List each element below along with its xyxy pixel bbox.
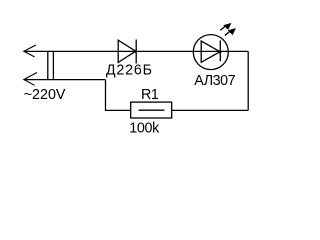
- LED AL307 triangle: [201, 41, 220, 62]
- plug pin arrow top: [24, 45, 36, 57]
- svg-text:Д226Б: Д226Б: [106, 63, 153, 79]
- wire: left vertical drop to resistor row: [106, 80, 131, 111]
- wire bottom-left: plug lower pin: [24, 79, 106, 81]
- LED light arrow 1 shaft: [220, 26, 225, 30]
- LED junction dot: [218, 50, 221, 53]
- resistor R1 body: [131, 102, 172, 118]
- resistor R1 inner bar: [139, 109, 165, 111]
- svg-text:~220V: ~220V: [24, 87, 66, 103]
- plug pin arrow bottom: [24, 73, 37, 86]
- plug socket bar 2: [52, 51, 54, 80]
- diode junction dot: [134, 50, 137, 53]
- svg-text:АЛ307: АЛ307: [194, 73, 235, 89]
- wire: right vertical from LED down: [247, 51, 249, 110]
- LED light arrow 1 head: [223, 23, 231, 30]
- LED AL307 circle: [193, 35, 228, 70]
- diode D226B cathode bar: [135, 40, 137, 64]
- LED light arrow 2 head: [228, 28, 236, 35]
- diode D226B triangle: [118, 40, 136, 62]
- LED light arrow 2 shaft: [225, 31, 230, 35]
- svg-text:R1: R1: [141, 87, 159, 103]
- plug socket bar 1: [47, 51, 49, 80]
- LED AL307 cathode bar: [219, 40, 221, 61]
- svg-text:100k: 100k: [129, 121, 160, 137]
- wire: resistor to right vertical: [172, 109, 249, 111]
- wire top: plug to diode to LED to right corner: [24, 50, 248, 52]
